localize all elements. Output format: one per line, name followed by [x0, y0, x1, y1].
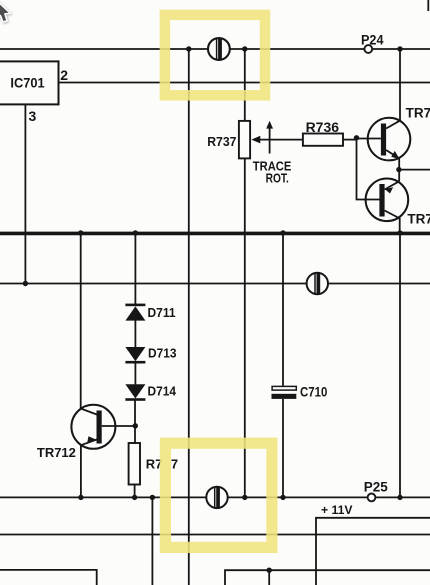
IC701 box [0, 61, 59, 104]
wire D711-D713 [134, 320, 136, 347]
svg-text:IC701: IC701 [10, 76, 45, 91]
wire bottom-left corner [0, 570, 97, 585]
svg-text:P24: P24 [361, 32, 384, 47]
svg-text:D711: D711 [148, 305, 176, 320]
wire trimmer to R737 top [244, 49, 246, 121]
node pin3 to rail [23, 281, 28, 286]
node bus x283 [280, 230, 285, 235]
node y570 x269 [267, 568, 272, 573]
node emitters output [396, 167, 401, 172]
svg-text:TR71: TR71 [406, 106, 430, 121]
wire y=497 rail [0, 496, 430, 498]
diode D713 [125, 346, 176, 364]
wire TR712 emitter down [80, 445, 82, 498]
wire R747 bottom lead [134, 485, 136, 498]
wire stub down from y497 at x152 [151, 497, 153, 585]
transistor TR712 (PNP) [37, 405, 135, 460]
trimmer capacitor top (in yellow box) [208, 38, 230, 60]
wire diode chain from bus [134, 233, 136, 304]
node y497 x80 [78, 495, 83, 500]
svg-text:TR71: TR71 [407, 212, 430, 227]
svg-text:3: 3 [29, 108, 37, 124]
highlight box top (yellow) [165, 15, 265, 95]
svg-text:R736: R736 [306, 120, 340, 135]
resistor R736 [303, 120, 357, 146]
wire output node to right edge [399, 169, 430, 171]
node y497 x283 [280, 495, 285, 500]
wire top rail to TR top collector [399, 49, 401, 121]
resistor R737 [207, 121, 250, 158]
scan mark top right edge [427, 0, 429, 11]
wire bottom-middle corner [225, 570, 430, 585]
wire y=283 rail [0, 283, 430, 285]
highlight box bottom (yellow) [165, 443, 272, 547]
node TR712 base / diode chain [133, 423, 138, 428]
wire IC701 pin2 to right edge [59, 82, 430, 84]
node y497 x134 [132, 495, 137, 500]
svg-text:ROT.: ROT. [266, 171, 289, 186]
wire lower TR collector to bus [399, 218, 401, 233]
node top rail x400 [397, 46, 402, 51]
wire base node down to lower transistor [357, 138, 380, 200]
node bus x400 [397, 230, 402, 235]
connector P25 [364, 479, 388, 501]
node bus x80 [78, 230, 83, 235]
wire D713-D714 [134, 363, 136, 385]
svg-text:TR712: TR712 [37, 445, 76, 460]
node top-left of trimmer [186, 46, 191, 51]
svg-text:R737: R737 [207, 134, 236, 149]
wire IC701 pin3 [24, 104, 26, 283]
node base junction [354, 135, 359, 140]
svg-text:C710: C710 [300, 385, 327, 400]
svg-text:P25: P25 [364, 479, 388, 494]
wire R737 bottom long vertical [244, 158, 246, 497]
wire C710 to y497 [282, 399, 284, 498]
wire bus to C710 [282, 233, 284, 386]
svg-text:D713: D713 [148, 346, 177, 361]
svg-text:D714: D714 [148, 383, 177, 398]
node y497 x400 [397, 495, 402, 500]
svg-text:2: 2 [60, 67, 68, 83]
wire y=534 rail [0, 534, 430, 536]
wire top rail y=49 [0, 48, 430, 50]
transistor TR7xx bottom (PNP) [366, 179, 430, 227]
wiper arrow of R737 [251, 121, 303, 154]
svg-text:+ 11V: + 11V [321, 503, 353, 517]
wire stub down at x269 [268, 570, 270, 585]
diode D711 [125, 304, 175, 321]
wire main bus [0, 232, 430, 236]
wire D714 to R747 [134, 400, 136, 443]
node y497 x245 [242, 495, 247, 500]
node top-right of trimmer [242, 46, 247, 51]
wire bottom-right corner box [316, 518, 430, 585]
node bus x135 [133, 230, 138, 235]
wire emitters node vertical [398, 159, 400, 182]
node y497 x152 [150, 495, 155, 500]
capacitor C710 [272, 385, 328, 400]
trimmer capacitor bottom (in yellow box) [206, 487, 227, 508]
svg-text:7: 7 [171, 456, 178, 471]
connector P24 [361, 32, 384, 53]
trimmer capacitor middle [307, 273, 328, 294]
wire TR712 collector from bus [80, 233, 82, 409]
diode D714 [125, 383, 176, 400]
transistor TR7xx top (NPN) [357, 106, 430, 161]
wire bus down to y497 at x400 [399, 233, 401, 497]
resistor R747 [129, 443, 179, 485]
wire long vertical x189 [188, 49, 190, 585]
